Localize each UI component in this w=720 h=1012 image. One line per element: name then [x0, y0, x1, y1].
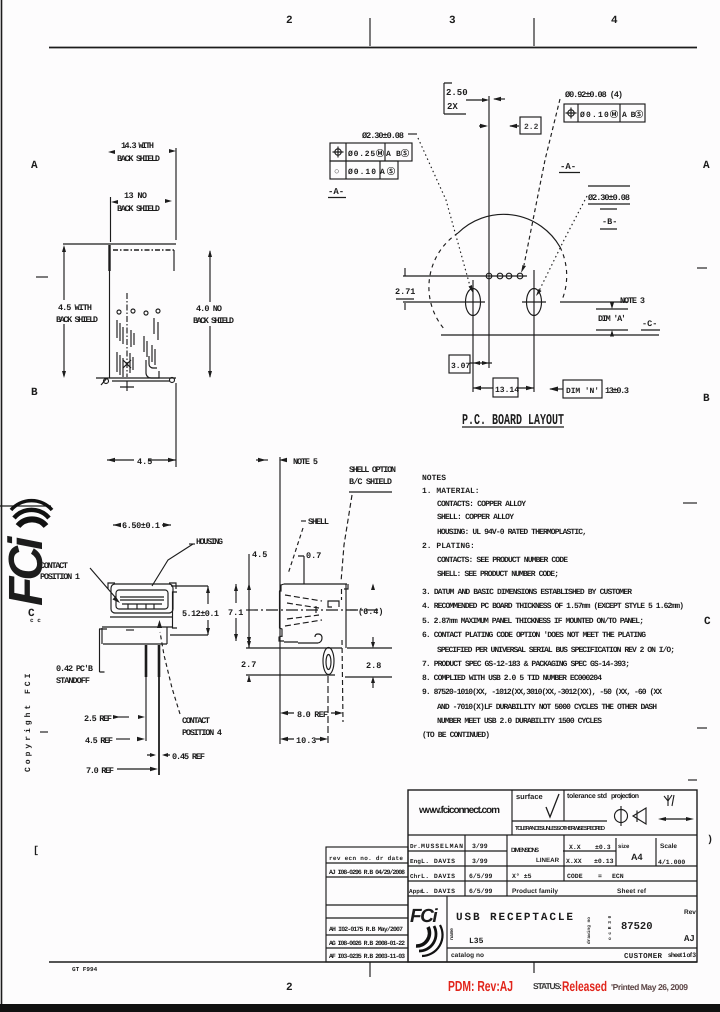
side view right edge: [345, 584, 347, 648]
dim 13 extension line left: [110, 197, 112, 242]
tongue: [120, 597, 164, 604]
svg-text:NUMBER MEET USB 2.0 DURABILITY: NUMBER MEET USB 2.0 DURABILITY 1500 CYCL…: [437, 717, 602, 726]
small hole 1: [486, 273, 492, 279]
svg-text:Ø2.30±0.08: Ø2.30±0.08: [362, 131, 404, 141]
svg-text:4.5: 4.5: [137, 457, 152, 467]
svg-text:87520: 87520: [621, 921, 653, 933]
bottom black bar: [0, 1004, 720, 1012]
pin hole inner: [326, 655, 331, 670]
phantom circle solid arc: [458, 214, 560, 247]
FCI logo left margin (rotated): [0, 501, 53, 606]
zone tick bottom 2/3: [369, 962, 371, 977]
svg-text:A: A: [31, 160, 38, 172]
top view top edge: [63, 243, 176, 245]
dim 8.0 REF: [286, 712, 338, 714]
svg-text:STANDOFF: STANDOFF: [56, 676, 90, 686]
dim 2.8 right arrows: [372, 585, 374, 688]
svg-text:○: ○: [334, 167, 339, 177]
pcb vertical centerline: [488, 96, 490, 368]
svg-text:2X: 2X: [447, 102, 458, 112]
svg-text:1. MATERIAL:: 1. MATERIAL:: [422, 487, 480, 496]
svg-text:13 NO: 13 NO: [124, 191, 147, 201]
svg-text:4/1.000: 4/1.000: [658, 859, 685, 866]
svg-text:2.7: 2.7: [241, 660, 256, 670]
zone tick right C/D: [697, 727, 707, 729]
zone tick right A/B: [697, 267, 707, 269]
basic dim box 2.2: [520, 117, 541, 134]
svg-text:www.fciconnect.com: www.fciconnect.com: [418, 805, 500, 816]
title block verticals header: [512, 790, 564, 835]
small hole 2: [497, 273, 503, 279]
svg-text:A BⓈ: A BⓈ: [386, 149, 409, 159]
svg-text:LINEAR: LINEAR: [536, 857, 560, 864]
top view left edge: [109, 260, 111, 378]
side view left foot: [279, 636, 284, 641]
svg-text:4. RECOMMENDED PC BOARD THICKN: 4. RECOMMENDED PC BOARD THICKNESS OF 1.5…: [422, 602, 684, 611]
vf mark: [664, 795, 674, 806]
svg-text:AG I08-0026 R.B 2008-01-22: AG I08-0026 R.B 2008-01-22: [329, 940, 405, 947]
svg-text:Product family: Product family: [512, 888, 558, 895]
svg-text:SHELL: SHELL: [308, 517, 329, 527]
pin centerline below: [327, 676, 329, 744]
svg-text:(6.4): (6.4): [358, 607, 384, 617]
svg-text:9. 87520-1010(XX, -1012(XX,301: 9. 87520-1010(XX, -1012(XX,3010(XX,-3012…: [422, 688, 662, 697]
svg-text:AJ: AJ: [684, 934, 695, 944]
title block outer box: [408, 790, 697, 962]
dim 13 arrows: [111, 199, 172, 204]
svg-text:L. DAVIS: L. DAVIS: [421, 873, 455, 880]
svg-text:±0.3: ±0.3: [595, 844, 611, 851]
svg-text:Chr: Chr: [410, 873, 421, 880]
name date columns: [465, 835, 656, 896]
svg-text:7.0 REF: 7.0 REF: [86, 766, 114, 776]
contact row 2 detail: [144, 311, 148, 315]
side view centerline: [246, 609, 380, 611]
svg-text:8. COMPLIED WITH USB 2.0 5 TID: 8. COMPLIED WITH USB 2.0 5 TID NUMBER EC…: [422, 674, 602, 683]
dim 14.3 arrows: [108, 149, 176, 154]
contact row 1 detail: [117, 310, 121, 314]
dim 4.0 right dim line: [209, 251, 211, 377]
svg-text:A: A: [703, 160, 710, 172]
dim 5.12 extension lines: [170, 586, 208, 635]
leader dia2.30 left to hole: [418, 138, 470, 286]
svg-text:AⓈ: AⓈ: [380, 167, 395, 177]
svg-text:CONTACTS: COPPER ALLOY: CONTACTS: COPPER ALLOY: [437, 500, 526, 509]
shell opening: [116, 590, 168, 609]
svg-text:8.0 REF: 8.0 REF: [297, 710, 328, 720]
pin hole outer: [323, 648, 334, 675]
svg-text:2.2: 2.2: [524, 123, 539, 132]
svg-text:POSITION 1: POSITION 1: [40, 572, 80, 582]
board section right: [345, 648, 392, 677]
svg-text:MUSSELMAN: MUSSELMAN: [421, 843, 463, 850]
svg-text:B: B: [703, 393, 710, 405]
svg-text:Ø2.30±0.08: Ø2.30±0.08: [588, 193, 630, 203]
extension line below right: [175, 383, 177, 467]
top view left bottom hook: [104, 379, 109, 384]
notes block: [422, 474, 684, 740]
top view heavy left corner: [108, 245, 110, 271]
svg-text:4: 4: [611, 15, 618, 27]
top view shield dashed edge: [113, 249, 174, 251]
small hole 3: [506, 273, 512, 279]
top view bottom shield edges: [96, 378, 176, 381]
svg-text:Ø0.10: Ø0.10: [348, 168, 376, 177]
svg-text:PDM: Rev:AJ: PDM: Rev:AJ: [448, 979, 513, 995]
svg-text:2: 2: [286, 982, 293, 994]
svg-text:6/5/99: 6/5/99: [469, 873, 493, 880]
small holes centerline: [403, 275, 527, 277]
svg-text:Sheet ref: Sheet ref: [617, 888, 647, 895]
svg-text:4.5 WITH: 4.5 WITH: [58, 303, 92, 313]
svg-text:FCi: FCi: [410, 906, 438, 927]
stray tick right notes: [688, 779, 697, 781]
svg-text:AND -7010(X)LF DURABILITY NOT: AND -7010(X)LF DURABILITY NOT 5000 CYCLE…: [437, 703, 657, 712]
contact hook solid: [328, 601, 339, 607]
svg-text:DIM 'A': DIM 'A': [598, 314, 626, 324]
third angle projection symbol: [615, 810, 628, 823]
svg-text:projection: projection: [611, 792, 639, 800]
svg-text:3. DATUM AND BASIC DIMENSIONS: 3. DATUM AND BASIC DIMENSIONS ESTABLISHE…: [422, 588, 632, 597]
svg-text:7. PRODUCT SPEC GS-12-183 & PA: 7. PRODUCT SPEC GS-12-183 & PACKAGING SP…: [422, 660, 630, 669]
top view right bottom hook: [170, 378, 175, 383]
svg-text:4.5 REF: 4.5 REF: [85, 736, 113, 746]
svg-text:HOUSING: HOUSING: [196, 537, 223, 547]
svg-text:B/C SHIELD: B/C SHIELD: [349, 477, 392, 487]
tongue contacts: [128, 604, 154, 609]
svg-text:6.50±0.1: 6.50±0.1: [122, 521, 160, 531]
svg-text:ECN: ECN: [612, 873, 624, 880]
svg-text:2.8: 2.8: [366, 661, 381, 671]
svg-text:rev ecn no. dr date: rev ecn no. dr date: [329, 855, 403, 862]
svg-text:Dr.: Dr.: [410, 843, 421, 850]
svg-text:5. 2.87mm MAXIMUM PANEL THICKN: 5. 2.87mm MAXIMUM PANEL THICKNESS IF MOU…: [422, 617, 644, 626]
drawing border left edge: [1, 0, 3, 1004]
shell option dashed leader: [341, 495, 352, 582]
svg-text:(TO BE CONTINUED): (TO BE CONTINUED): [422, 731, 490, 740]
fcf top right leader: [524, 99, 560, 265]
svg-text:c c: c c: [30, 617, 41, 624]
base body: [102, 627, 172, 644]
svg-text:3: 3: [449, 15, 456, 27]
svg-text:BACK SHIELD: BACK SHIELD: [117, 204, 160, 214]
zone tick left C/D: [40, 731, 48, 733]
dim 10.3: [286, 738, 323, 740]
contact row 1 centerline: [126, 293, 128, 377]
svg-text:B: B: [31, 387, 38, 399]
svg-text:L. DAVIS: L. DAVIS: [421, 888, 455, 895]
svg-text:4.0 NO: 4.0 NO: [196, 304, 222, 314]
name date rows lines: [408, 851, 697, 896]
svg-text:Ø0.10Ⓜ: Ø0.10Ⓜ: [580, 110, 618, 120]
svg-text:2.50: 2.50: [446, 88, 468, 98]
svg-text:BACK SHIELD: BACK SHIELD: [193, 316, 234, 326]
dim 4.5 width front view: [107, 459, 176, 461]
pin below view: [120, 381, 134, 391]
dim A lower line: [596, 329, 628, 331]
svg-text:name: name: [449, 928, 455, 940]
svg-text:CODE: CODE: [567, 873, 583, 880]
svg-text:sheet 1 of 3: sheet 1 of 3: [668, 952, 696, 959]
contact spring dashed wedge lower: [285, 615, 322, 626]
svg-text:CUSTOMER: CUSTOMER: [624, 952, 662, 961]
svg-text:Ø0.92±0.08 (4): Ø0.92±0.08 (4): [565, 90, 623, 100]
fcf left row2: [330, 161, 398, 179]
svg-text:SHELL: SEE PRODUCT NUMBER CODE: SHELL: SEE PRODUCT NUMBER CODE;: [437, 570, 559, 579]
svg-text:3/99: 3/99: [472, 843, 488, 850]
svg-text:14.3 WITH: 14.3 WITH: [121, 141, 154, 151]
tolerances band lines: [408, 821, 697, 835]
zone tick left A/B: [36, 276, 48, 278]
dim N box: [563, 380, 602, 398]
contact spring dashed wedge upper: [285, 595, 322, 608]
svg-text:L. DAVIS: L. DAVIS: [421, 858, 455, 865]
svg-text:6/5/99: 6/5/99: [469, 888, 493, 895]
datum B symbol right: [600, 208, 617, 210]
svg-text:4.5: 4.5: [252, 550, 267, 560]
FCI logo title block: [410, 906, 443, 956]
svg-text:POSITION 4: POSITION 4: [182, 728, 222, 738]
svg-text:HOUSING: UL 94V-0 RATED THERMO: HOUSING: UL 94V-0 RATED THERMOPLASTIC,: [437, 528, 587, 537]
svg-text:X.X: X.X: [569, 844, 581, 851]
svg-text:'Printed May 26, 2009: 'Printed May 26, 2009: [611, 982, 688, 992]
fcf left row1: [330, 143, 412, 161]
svg-text:): ): [707, 834, 713, 846]
big hole left: [466, 289, 481, 316]
svg-text:7.1: 7.1: [228, 608, 243, 618]
svg-text:-A-: -A-: [560, 162, 576, 172]
side view bottom edge: [284, 642, 318, 643]
svg-text:3/99: 3/99: [472, 858, 488, 865]
svg-text:o c R 3 0: o c R 3 0: [607, 915, 613, 940]
shell ears: [108, 583, 176, 589]
svg-text:2.5 REF: 2.5 REF: [84, 714, 112, 724]
base tab mark: [126, 629, 134, 631]
svg-text:NOTES: NOTES: [422, 474, 446, 483]
svg-text:Eng: Eng: [410, 858, 421, 865]
drawing border bottom edge: [49, 961, 697, 963]
dim 13.14 box: [493, 378, 518, 397]
svg-text:L35: L35: [469, 937, 484, 946]
svg-text:Released: Released: [562, 978, 607, 994]
zone tick top 2/3: [369, 18, 371, 46]
side view left edge: [280, 591, 283, 637]
big hole right: [527, 289, 542, 316]
dim 6.4 ref right: [350, 609, 356, 611]
projection arrow: [662, 818, 690, 820]
label dia 2.30 right: [588, 185, 630, 187]
arrow right of centerline: [494, 98, 505, 100]
contact position 1 leader: [90, 568, 115, 597]
dim 6.50 +-0.1: [113, 524, 171, 526]
big hole extension lines: [473, 270, 534, 392]
svg-text:AH I02-0175 R.B May/2007: AH I02-0175 R.B May/2007: [329, 926, 403, 933]
svg-text:SPECIFIED PER UNIVERSAL SERIAL: SPECIFIED PER UNIVERSAL SERIAL BUS SPECI…: [437, 646, 675, 655]
svg-text:0.42 PC'B: 0.42 PC'B: [56, 664, 93, 674]
svg-text:DIM 'N': DIM 'N': [566, 387, 599, 396]
top view right edge upper: [173, 250, 175, 271]
svg-text:size: size: [618, 843, 630, 850]
svg-text:5.12±0.1: 5.12±0.1: [182, 609, 219, 619]
svg-text:TOLERANCES UNLESS OTHERWISE SP: TOLERANCES UNLESS OTHERWISE SPECIFIED: [515, 825, 605, 832]
svg-text:CONTACTS: SEE PRODUCT NUMBER C: CONTACTS: SEE PRODUCT NUMBER CODE: [437, 556, 568, 565]
svg-text:BACK SHIELD: BACK SHIELD: [56, 315, 98, 325]
dim 14.3 extension line right: [175, 148, 177, 240]
svg-text:=: =: [598, 873, 602, 880]
svg-text:USB RECEPTACLE: USB RECEPTACLE: [456, 912, 573, 924]
svg-text:DIMENSIONS: DIMENSIONS: [511, 847, 539, 854]
standoff bracket: [99, 629, 107, 672]
svg-text:2. PLATING:: 2. PLATING:: [422, 542, 475, 551]
side view top left lip: [279, 584, 284, 591]
svg-text:X° ±5: X° ±5: [512, 873, 532, 880]
svg-text:STATUS:: STATUS:: [533, 981, 562, 991]
svg-text:±0.13: ±0.13: [594, 858, 614, 865]
dim A upper line: [596, 308, 628, 310]
side view right ear: [344, 584, 348, 589]
svg-text:-A-: -A-: [328, 187, 344, 197]
svg-text:surface: surface: [516, 792, 543, 801]
pin left front: [145, 645, 148, 677]
svg-text:tolerance std: tolerance std: [567, 792, 607, 800]
svg-text:-C-: -C-: [642, 319, 657, 329]
svg-text:13±0.3: 13±0.3: [605, 386, 629, 396]
svg-text:AJ I08-0296 R.B 04/29/2008: AJ I08-0296 R.B 04/29/2008: [329, 869, 405, 876]
note 5 arrow and label: [256, 459, 268, 461]
svg-text:6. CONTACT PLATING CODE OPTION: 6. CONTACT PLATING CODE OPTION 'DOES NOT…: [422, 631, 646, 640]
svg-text:drawing no: drawing no: [586, 917, 592, 944]
svg-text:X.XX: X.XX: [566, 858, 582, 865]
drawing border top edge: [49, 47, 697, 49]
svg-text:0.45 REF: 0.45 REF: [172, 752, 205, 762]
pin right front: [158, 645, 161, 677]
svg-text:Rev: Rev: [684, 909, 696, 916]
contact position 4 leader: [160, 632, 180, 714]
side view solder hook: [315, 634, 322, 643]
svg-text:NOTE 5: NOTE 5: [293, 457, 318, 467]
svg-text:C: C: [704, 616, 711, 628]
svg-text:BACK SHIELD: BACK SHIELD: [117, 154, 160, 164]
big holes centerline: [403, 301, 628, 303]
svg-text:GT F994: GT F994: [72, 966, 98, 973]
svg-text:NOTE 3: NOTE 3: [620, 296, 645, 306]
svg-text:catalog no: catalog no: [451, 952, 484, 959]
dim 3.07 box: [449, 355, 470, 373]
bottom section dividers: [447, 896, 697, 962]
svg-text:2: 2: [286, 15, 293, 27]
dim 4.5 left dim line: [63, 247, 65, 376]
zone tick left B/C: [0, 505, 51, 507]
shell outline front: [111, 584, 173, 613]
dim 5.12 line: [207, 586, 209, 635]
svg-text:-B-: -B-: [602, 217, 617, 227]
contact row 2 hooks: [149, 356, 157, 368]
zone tick bottom 3/4: [533, 962, 535, 973]
svg-text:0.7: 0.7: [306, 551, 321, 561]
revision table: [326, 847, 408, 962]
phantom circle dashed part: [429, 233, 567, 330]
svg-text:3.07: 3.07: [451, 362, 470, 371]
board section left: [246, 648, 342, 675]
base top: [110, 616, 173, 618]
dim 5.12 bracket: [173, 592, 178, 628]
zone tick right B/C: [683, 502, 697, 504]
svg-text:A4: A4: [631, 852, 643, 862]
zone tick top 3/4: [533, 18, 535, 46]
svg-text:Copyright FCI: Copyright FCI: [24, 671, 33, 772]
svg-text:10.3: 10.3: [296, 736, 316, 746]
small hole 4: [517, 273, 523, 279]
board edge line: [441, 334, 659, 336]
svg-text:Ø0.25Ⓜ: Ø0.25Ⓜ: [348, 149, 384, 159]
svg-text:AF I03-0235 R.B 2003-11-03: AF I03-0235 R.B 2003-11-03: [329, 953, 405, 960]
arrow pair at basic box: [479, 125, 519, 127]
contact row 1 asterisk: [123, 360, 131, 368]
svg-text:SHELL: COPPER ALLOY: SHELL: COPPER ALLOY: [437, 513, 514, 522]
svg-text:[: [: [33, 845, 39, 857]
svg-text:A BⓈ: A BⓈ: [622, 110, 643, 120]
fcf top right frame: [564, 104, 645, 122]
svg-text:CONTACT: CONTACT: [182, 716, 210, 726]
svg-text:2.71: 2.71: [395, 287, 415, 297]
side view top edge: [284, 583, 347, 585]
panel line: [279, 457, 281, 744]
leader 2.50 to centerline: [466, 99, 487, 101]
svg-text:SHELL OPTION: SHELL OPTION: [349, 465, 396, 475]
svg-text:Scale: Scale: [660, 843, 677, 850]
svg-text:13.14: 13.14: [495, 386, 519, 395]
svg-text:CONTACT: CONTACT: [40, 561, 68, 571]
leader dia2.30 right to hole: [539, 196, 587, 291]
